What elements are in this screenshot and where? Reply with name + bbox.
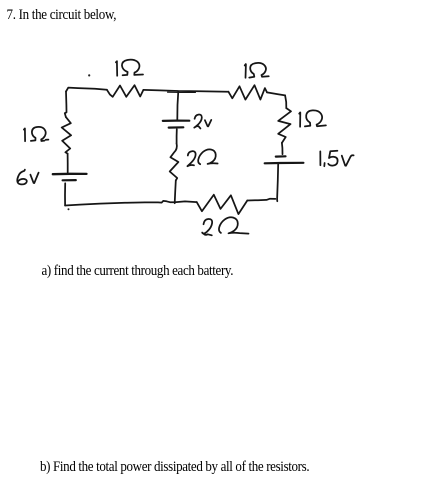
resistor R5 2ohm bottom zigzag: [197, 195, 248, 214]
wire bottom-middle to resistor: [175, 200, 197, 203]
stray dot below left corner: [68, 208, 70, 210]
wire left vertical upper: [65, 92, 67, 118]
wire below left battery: [64, 183, 66, 205]
label 1.5v: letter v: [342, 155, 354, 165]
label 2v middle battery: letter v: [205, 120, 211, 127]
label 1ohm top-right: digit 1: [245, 64, 246, 78]
label 2ohm bottom: omega: [219, 217, 249, 233]
battery B1 6V long plate: [53, 173, 87, 176]
label 1.5v: digit 5: [328, 151, 337, 166]
stray dot: [88, 74, 90, 76]
label 1ohm right: digit 1: [299, 112, 300, 126]
label 1ohm top-left: digit 1: [116, 61, 117, 76]
label 1.5v: comma: [323, 163, 325, 166]
battery B2 2v long plate: [163, 119, 190, 122]
label 2ohm middle: digit 2: [187, 151, 195, 166]
label 2ohm bottom: digit 2: [202, 219, 212, 235]
question a: [42, 261, 234, 280]
label 2ohm middle: omega: [198, 149, 217, 164]
battery B3 1.5v short plate: [276, 155, 286, 158]
resistor R3 1ohm left vertical zigzag: [62, 117, 71, 154]
wire middle battery to resistor: [176, 129, 178, 143]
battery B3 1.5v long plate: [265, 162, 304, 165]
label 2v middle battery: digit 2: [194, 115, 202, 129]
label 6V: letter V: [30, 173, 38, 183]
wire left to battery: [67, 154, 69, 173]
battery B1 6V short plate: [63, 179, 76, 181]
label 1.5v: digit 1: [319, 151, 321, 165]
label 1ohm top-left: omega: [122, 60, 143, 76]
resistor R4 2ohm middle vertical squiggle: [170, 143, 179, 180]
question b: [40, 457, 309, 476]
wire top-left segment: [66, 88, 107, 92]
battery B2 2v short plate: [169, 126, 184, 128]
resistor R6 1ohm right vertical zigzag: [278, 108, 291, 143]
wire middle vertical lower: [175, 180, 176, 203]
label 1ohm top-right: omega: [249, 63, 268, 78]
label 6V: digit 6: [17, 170, 27, 185]
wire top-right vertical into resistor: [285, 95, 286, 108]
wire middle vertical upper: [177, 91, 178, 119]
resistor R2 1ohm top-right zigzag: [228, 85, 267, 99]
wire bottom-left segment: [65, 201, 175, 206]
wire right to battery: [281, 143, 284, 154]
wire top-middle segment: [143, 90, 228, 92]
resistor R1 1ohm top-left zigzag: [107, 85, 143, 97]
label 1ohm left: omega: [31, 127, 49, 141]
wire to top-right corner: [267, 92, 285, 95]
wire below right battery: [277, 163, 278, 201]
title text: [7, 5, 117, 24]
wire bottom-right segment: [247, 199, 275, 201]
label 1ohm right: omega: [305, 110, 326, 126]
node A top-middle junction retrace: [168, 91, 196, 93]
label 1ohm left: digit 1: [24, 128, 25, 141]
